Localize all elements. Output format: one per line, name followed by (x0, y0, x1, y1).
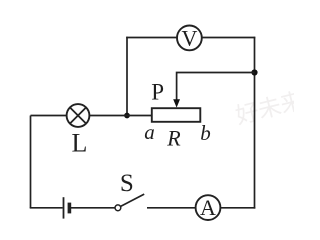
svg-text:P: P (151, 80, 164, 105)
slider arrow head (wiper P) (173, 99, 180, 107)
wire: lamp to rheostat (90, 115, 153, 117)
svg-text:R: R (166, 126, 181, 151)
ammeter A (196, 195, 221, 220)
wire: voltmeter to top-left corner (126, 37, 177, 39)
wire: battery to switch (71, 207, 115, 209)
wire: left vertical (lamp row to bottom row) (30, 116, 32, 208)
wire: switch to ammeter (147, 207, 195, 209)
wire: bottom, left corner to battery (30, 207, 63, 209)
wire: voltmeter branch vertical down to lamp node (126, 37, 128, 116)
switch S (115, 194, 144, 211)
node: junction dot on lamp row (124, 113, 130, 119)
svg-text:a: a (144, 120, 155, 144)
wire: right vertical (254, 37, 256, 209)
svg-text:A: A (200, 195, 216, 220)
wire: top-right corner to voltmeter (202, 37, 255, 39)
svg-text:好未来: 好未来 (233, 87, 294, 129)
rheostat R body (152, 108, 201, 122)
wire: ammeter to bottom-right corner (221, 207, 256, 209)
wire: slider feed (junction to arrow, with corner) (177, 73, 255, 101)
battery cell (64, 197, 70, 218)
svg-text:S: S (120, 170, 134, 197)
svg-text:L: L (72, 128, 88, 157)
voltmeter V (177, 26, 202, 51)
svg-text:V: V (181, 26, 197, 51)
lamp L (67, 104, 90, 127)
svg-text:b: b (200, 121, 211, 145)
wire: left corner to lamp (31, 115, 67, 117)
node: junction dot top-right (251, 69, 257, 75)
